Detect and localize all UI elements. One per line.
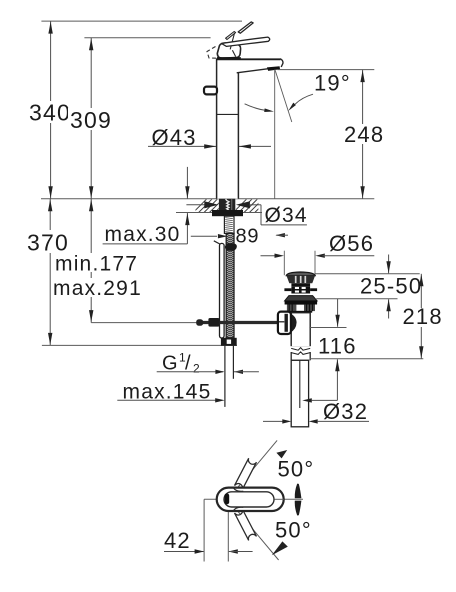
big arrow right at deck hole (O34) — [236, 201, 250, 208]
pop-up cap dome — [286, 272, 315, 276]
hose end nut — [221, 338, 237, 346]
max.30 leader underline — [103, 243, 188, 245]
dimension min.177/max.291 vertical line — [90, 199, 92, 323]
dimension 42 line with arrows — [164, 551, 204, 553]
svg-text:/: / — [185, 353, 191, 375]
lever base joint (thick) — [217, 57, 241, 59]
svg-text:G: G — [162, 353, 178, 375]
drain body tube upper — [291, 313, 310, 347]
tee bottom extension line — [309, 327, 346, 329]
flange extension line — [316, 298, 397, 300]
lever pivot inner line — [230, 32, 235, 49]
label 340 — [27, 101, 72, 123]
pull rod hook line — [214, 241, 221, 245]
side tee knob (pop-up rod connection) — [290, 313, 297, 333]
upper 50deg arc arrowhead — [276, 450, 287, 458]
side pins — [284, 288, 291, 291]
faucet body right edge — [237, 73, 239, 199]
spout rotated -50 (lower capsule) — [235, 509, 257, 540]
dimension 340 vertical line — [50, 21, 52, 199]
flange rim (black band) — [285, 301, 318, 305]
spout underside line — [237, 68, 276, 73]
O34 leader corner — [260, 205, 262, 225]
bottom view centerline stub right of inner — [275, 498, 284, 500]
pop-up cap knurled band — [286, 275, 315, 283]
svg-text:Ø43: Ø43 — [152, 125, 197, 150]
label 116 — [316, 336, 358, 355]
lever middle blade — [226, 32, 236, 40]
dimension 89 arrow to centerline — [191, 235, 217, 237]
tailpipe shoulder — [291, 359, 309, 361]
svg-text:248: 248 — [344, 122, 384, 147]
body top cap line — [216, 58, 281, 60]
svg-text:25-50: 25-50 — [360, 274, 422, 299]
lever tip blade — [238, 22, 253, 33]
O32 dimension arrows — [263, 420, 283, 422]
svg-text:Ø34: Ø34 — [265, 204, 308, 227]
svg-text:max.30: max.30 — [105, 223, 181, 246]
upper capsule end crossing stadium edge — [233, 488, 243, 492]
faucet body column with spout overhang — [217, 59, 283, 199]
cross block with windows — [291, 286, 310, 293]
counter / deck top line — [41, 198, 374, 200]
label 370 — [25, 230, 70, 253]
braided supply hose — [226, 233, 234, 337]
hose end reference line (370 bottom) — [42, 344, 237, 346]
bottom view inner stadium — [224, 492, 274, 507]
umbrella flange — [285, 296, 318, 301]
leader line from min/max arrow to pop-up rod — [91, 322, 196, 324]
dimension 248 vertical line — [362, 70, 364, 199]
O56 dimension line with arrows — [261, 255, 278, 257]
deck bottom line — [176, 212, 262, 214]
svg-text:Ø56: Ø56 — [329, 231, 374, 256]
lower 50deg arc arrowhead — [272, 541, 288, 555]
bottom view horizontal centerline — [204, 498, 303, 500]
rod coupling near hose — [208, 318, 219, 327]
label min.177 — [53, 253, 141, 272]
G1/2 leader with arrows — [157, 371, 224, 373]
19-degree slant line from outlet — [275, 70, 292, 123]
rod bead — [196, 319, 203, 326]
max.30 upper arrow (above counter) — [186, 167, 188, 199]
horizontal pop-up rod — [197, 321, 292, 324]
washer under deck — [212, 210, 243, 216]
lever pivot block — [217, 43, 240, 58]
label max.291 — [51, 278, 143, 297]
label O32 — [321, 401, 369, 418]
label 309 — [68, 108, 113, 130]
cartridge bar (black) — [225, 494, 230, 505]
faucet body division line — [217, 113, 239, 115]
tailpipe inner line — [299, 360, 301, 408]
deck hatching right — [233, 199, 279, 213]
svg-text:Ø32: Ø32 — [323, 399, 368, 424]
svg-text:89: 89 — [236, 226, 260, 248]
extension line (309, to lever base) — [84, 37, 210, 39]
svg-text:min.177: min.177 — [55, 253, 138, 276]
dimension 116 upper arrow — [337, 299, 339, 327]
deck hatching left — [193, 199, 239, 213]
dimension 218 vertical line — [420, 274, 422, 359]
50 deg lower swing line — [231, 503, 279, 560]
faucet body left edge — [216, 59, 218, 198]
svg-text:309: 309 — [70, 107, 112, 133]
svg-text:50°: 50° — [275, 518, 312, 543]
pop-up knob on body left — [204, 87, 217, 95]
vertical pull rod in front of hose — [220, 243, 225, 338]
spout outlet vertical extension line — [274, 70, 276, 199]
42 left extension line — [203, 499, 205, 561]
label 218 — [400, 308, 442, 327]
spout tip right curve — [280, 59, 283, 67]
threaded tube below washer — [224, 216, 234, 233]
O56 extension lines — [283, 251, 285, 276]
G1/2 pipe below hose — [224, 346, 226, 407]
aerator (black outlet) — [267, 66, 280, 71]
dimension 25-50 arrows — [388, 255, 390, 274]
248 extension line from outlet — [278, 69, 375, 71]
lower capsule end crossing stadium edge — [233, 507, 243, 511]
big arrow left at deck hole (O34) — [186, 204, 205, 206]
svg-text:19°: 19° — [314, 71, 351, 96]
svg-text:2: 2 — [193, 362, 200, 376]
svg-text:42: 42 — [164, 528, 191, 553]
rod clamp blob on hose — [225, 243, 237, 251]
lever hidden position (dashed) — [207, 47, 218, 59]
top extension line (340, to lever tip) — [41, 20, 242, 22]
25-50 extension line (cap top) — [315, 273, 420, 275]
max.145 leader arrow — [117, 399, 216, 401]
89 right arrow at outlet extension — [275, 233, 285, 237]
19-degree leader arc arrow — [295, 94, 313, 104]
svg-text:116: 116 — [318, 334, 357, 359]
dimension 370 vertical line — [49, 199, 51, 346]
svg-text:340: 340 — [29, 100, 71, 126]
dimension Ø43 with arrows at faucet body — [148, 145, 216, 147]
arc arrow pointing at vertical line — [245, 104, 267, 111]
spout rotated +50 (upper capsule) — [235, 458, 257, 540]
svg-text:max.291: max.291 — [53, 277, 142, 300]
tailpipe — [291, 360, 308, 427]
dimension 309 vertical line — [90, 38, 92, 199]
svg-text:218: 218 — [403, 304, 443, 329]
threaded shank through deck — [219, 199, 235, 211]
42 right extension line — [227, 512, 229, 562]
dimension 116 lower arrow and leader — [336, 359, 338, 400]
bottom view outer stadium (spout plan) — [217, 488, 284, 511]
label 248 — [342, 124, 384, 144]
break squiggle — [290, 346, 311, 354]
max.30 lower arrow (below deck) — [186, 213, 188, 244]
svg-text:50°: 50° — [278, 457, 315, 482]
cap neck — [291, 283, 310, 286]
lever handle arm — [222, 37, 270, 46]
50 deg upper swing line — [231, 440, 277, 495]
swing double arc arrow at right — [295, 484, 302, 499]
tailpipe reference line — [310, 358, 424, 360]
ribbed collar — [287, 305, 315, 312]
